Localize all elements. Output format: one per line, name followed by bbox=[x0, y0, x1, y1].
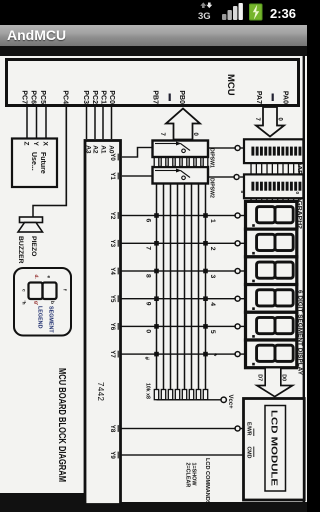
wire PC2-A2 bbox=[94, 107, 96, 139]
terminal Vcc bbox=[221, 397, 226, 402]
wire PC5-X bbox=[45, 107, 47, 139]
bus arrow PA0-PA7 to bargraph bbox=[256, 107, 284, 137]
future use box bbox=[12, 139, 57, 188]
terminal row 3 to display bbox=[235, 269, 240, 274]
bargraph to display comb bbox=[298, 198, 300, 202]
wire keypad row Y3 bbox=[121, 242, 236, 244]
wire PC1-A1 bbox=[102, 107, 104, 139]
svg-text:PC4: PC4 bbox=[62, 90, 69, 104]
wire PC3-A3 bbox=[86, 107, 88, 139]
resistor pullup 5 bbox=[189, 390, 193, 400]
wire bus bit 2 bbox=[170, 184, 172, 390]
resistor pullup 4 bbox=[182, 390, 186, 400]
svg-text:CMD: CMD bbox=[246, 447, 252, 459]
svg-text:1=SHOW: 1=SHOW bbox=[191, 463, 197, 487]
bargraph interconnect comb 1 bbox=[298, 163, 300, 174]
svg-text:Y1: Y1 bbox=[109, 172, 116, 180]
svg-text:5: 5 bbox=[209, 330, 216, 334]
terminal row 1 to display bbox=[235, 213, 240, 218]
svg-text:BUZZER: BUZZER bbox=[17, 236, 24, 264]
bus arrow D0-D7 displays to LCD bbox=[257, 368, 293, 397]
resistor pullup 1 bbox=[161, 390, 165, 400]
terminal bargraph2 bbox=[240, 176, 244, 178]
svg-text:PC5: PC5 bbox=[39, 90, 46, 104]
7-segment display DIGIT2 bbox=[246, 229, 297, 257]
junction key 0 bbox=[154, 324, 159, 329]
svg-text:PA0: PA0 bbox=[282, 91, 289, 104]
svg-text:e: e bbox=[46, 276, 51, 279]
wire Y0 to DIPSW1 bbox=[122, 148, 153, 158]
svg-text:Future: Future bbox=[39, 152, 46, 174]
svg-text:D7: D7 bbox=[257, 374, 263, 381]
wire keypad row Y4 bbox=[121, 270, 236, 272]
svg-text:3: 3 bbox=[209, 275, 216, 279]
DIPSW1 switch symbol bbox=[155, 143, 176, 145]
svg-text:7: 7 bbox=[145, 246, 152, 250]
svg-text:PC0: PC0 bbox=[108, 90, 115, 104]
svg-text:9: 9 bbox=[145, 302, 152, 306]
wire Y9 to CMD bbox=[121, 454, 244, 456]
svg-text:7442: 7442 bbox=[96, 382, 105, 402]
bus arrow PB0-PB7 to DIP switches bbox=[166, 109, 200, 140]
wire Y1 to DIPSW2 bbox=[122, 175, 153, 177]
svg-text:Use...: Use... bbox=[30, 152, 37, 171]
svg-text:PC6: PC6 bbox=[30, 90, 37, 104]
terminal row 4 to display bbox=[235, 296, 240, 301]
LCD module inner bbox=[265, 406, 286, 492]
svg-text:PC2: PC2 bbox=[91, 90, 98, 104]
svg-text:A1: A1 bbox=[100, 145, 107, 154]
svg-text:2:36: 2:36 bbox=[270, 6, 296, 21]
DIP switch DIPSW2 bbox=[153, 167, 209, 184]
svg-text:PC7: PC7 bbox=[21, 90, 28, 104]
PB range bar bbox=[169, 94, 171, 102]
svg-text:6: 6 bbox=[145, 219, 152, 223]
bargraph module BARGRAPH1 bbox=[244, 139, 303, 163]
terminal row 6 to display bbox=[235, 352, 240, 357]
svg-text:DIPSW2: DIPSW2 bbox=[209, 178, 215, 198]
resistor pullup 6 bbox=[196, 390, 200, 400]
svg-text:8: 8 bbox=[145, 274, 152, 278]
wire PC6-Y bbox=[36, 107, 38, 139]
svg-text:LCD COMMANDS:: LCD COMMANDS: bbox=[204, 458, 210, 507]
svg-text:Vcc+: Vcc+ bbox=[227, 395, 233, 410]
wire PC0-A0 bbox=[111, 107, 113, 139]
DIPSW2 switch symbol bbox=[155, 170, 176, 172]
wire Vcc rail bbox=[157, 399, 222, 401]
svg-text:LCD MODULE: LCD MODULE bbox=[270, 410, 280, 486]
legend digit bbox=[43, 283, 57, 300]
svg-text:Y7: Y7 bbox=[109, 350, 116, 358]
svg-text:Z: Z bbox=[23, 142, 30, 146]
svg-text:SEGMENT: SEGMENT bbox=[48, 306, 54, 333]
terminal row 5 to display bbox=[235, 324, 240, 329]
svg-text:10k x8: 10k x8 bbox=[145, 383, 151, 399]
wire bus bit 7 bbox=[205, 184, 207, 390]
MCU U1 bbox=[7, 60, 299, 106]
junction key # bbox=[154, 352, 159, 357]
svg-text:Y9: Y9 bbox=[109, 451, 116, 459]
wire bus bit 0 bbox=[156, 184, 158, 390]
DIP switch actuators bbox=[154, 158, 159, 167]
svg-text:4: 4 bbox=[209, 302, 216, 306]
terminal E/WR bbox=[235, 426, 240, 431]
svg-text:DIPSW1: DIPSW1 bbox=[209, 148, 215, 168]
frame top line bbox=[303, 56, 305, 503]
7-segment display DIGIT4 bbox=[246, 285, 297, 313]
svg-text:PB7: PB7 bbox=[152, 90, 159, 104]
svg-text:A2: A2 bbox=[92, 145, 99, 154]
wire keypad row Y7 bbox=[121, 353, 236, 355]
wire keypad row Y5 bbox=[121, 298, 236, 300]
svg-text:MCU: MCU bbox=[225, 74, 236, 96]
svg-text:PA7: PA7 bbox=[255, 91, 262, 104]
svg-text:PC1: PC1 bbox=[100, 90, 107, 104]
svg-text:Y0: Y0 bbox=[109, 153, 116, 161]
DIP switch DIPSW1 bbox=[153, 141, 209, 158]
svg-text:PC3: PC3 bbox=[82, 90, 89, 104]
wire bus bit 6 bbox=[198, 184, 200, 390]
svg-text:2=CLEAR: 2=CLEAR bbox=[185, 463, 191, 488]
wire PC7-Z bbox=[26, 107, 28, 139]
svg-text:Y4: Y4 bbox=[109, 267, 116, 275]
svg-text:Y5: Y5 bbox=[109, 295, 116, 303]
wire keypad row Y2 bbox=[121, 215, 236, 217]
svg-text:Y3: Y3 bbox=[109, 240, 116, 248]
junction key 1 bbox=[203, 213, 208, 218]
junction key 2 bbox=[203, 241, 208, 246]
junction key 4 bbox=[203, 296, 208, 301]
svg-text:PB0: PB0 bbox=[178, 90, 185, 104]
svg-text:E/WR: E/WR bbox=[246, 422, 252, 436]
wire bus bit 1 bbox=[163, 184, 165, 390]
7-segment display DIGIT1 bbox=[246, 201, 297, 229]
LCD module block bbox=[244, 399, 305, 501]
svg-text:Y6: Y6 bbox=[109, 323, 116, 331]
svg-text:Y: Y bbox=[32, 142, 39, 147]
frame right black bar bbox=[0, 502, 307, 512]
junction key 7 bbox=[154, 241, 159, 246]
wire PC4 to piezo bbox=[33, 107, 66, 217]
svg-text:0: 0 bbox=[145, 329, 152, 333]
wire Y8 to E/WR bbox=[240, 428, 244, 430]
bargraph module BARGRAPH2 bbox=[244, 174, 303, 198]
resistor pullup 7 bbox=[203, 390, 207, 400]
junction key 6 bbox=[154, 213, 159, 218]
wire bus bit 5 bbox=[191, 184, 193, 390]
segment legend box bbox=[14, 268, 71, 336]
7-segment display DIGIT5 bbox=[246, 312, 297, 340]
7-segment display DIGIT6 bbox=[246, 340, 297, 368]
7-segment display DIGIT3 bbox=[246, 257, 297, 285]
junction key 3 bbox=[203, 269, 208, 274]
frame left black bar bbox=[0, 46, 307, 56]
resistor pullup 2 bbox=[168, 390, 172, 400]
svg-text:2: 2 bbox=[209, 247, 216, 251]
svg-text:MCU BOARD BLOCK DIAGRAM: MCU BOARD BLOCK DIAGRAM bbox=[56, 368, 67, 482]
wire keypad row Y6 bbox=[121, 325, 236, 327]
svg-text:LEGEND: LEGEND bbox=[37, 306, 43, 329]
junction key 5 bbox=[203, 324, 208, 329]
svg-text:Y8: Y8 bbox=[109, 425, 116, 433]
resistor pullup 0 bbox=[154, 390, 158, 400]
junction key 9 bbox=[154, 296, 159, 301]
terminal row 2 to display bbox=[235, 241, 240, 246]
terminal bargraph1 bbox=[240, 147, 244, 149]
resistor pullup 3 bbox=[175, 390, 179, 400]
svg-text:A3: A3 bbox=[85, 145, 92, 154]
piezo buzzer bbox=[20, 217, 43, 223]
wire bus bit 3 bbox=[177, 184, 179, 390]
svg-text:D0: D0 bbox=[281, 374, 287, 381]
svg-text:c: c bbox=[21, 289, 26, 292]
svg-text:PIEZO: PIEZO bbox=[30, 236, 37, 256]
wire bus bit 4 bbox=[184, 184, 186, 390]
decoder 7442 U2 bbox=[85, 141, 121, 505]
svg-text:X: X bbox=[42, 142, 49, 147]
junction key * bbox=[203, 352, 208, 357]
svg-text:3G: 3G bbox=[198, 11, 211, 22]
svg-text:Y2: Y2 bbox=[109, 212, 116, 220]
junction key 8 bbox=[154, 269, 159, 274]
svg-text:1: 1 bbox=[209, 219, 216, 223]
PA range bar bbox=[272, 94, 274, 102]
